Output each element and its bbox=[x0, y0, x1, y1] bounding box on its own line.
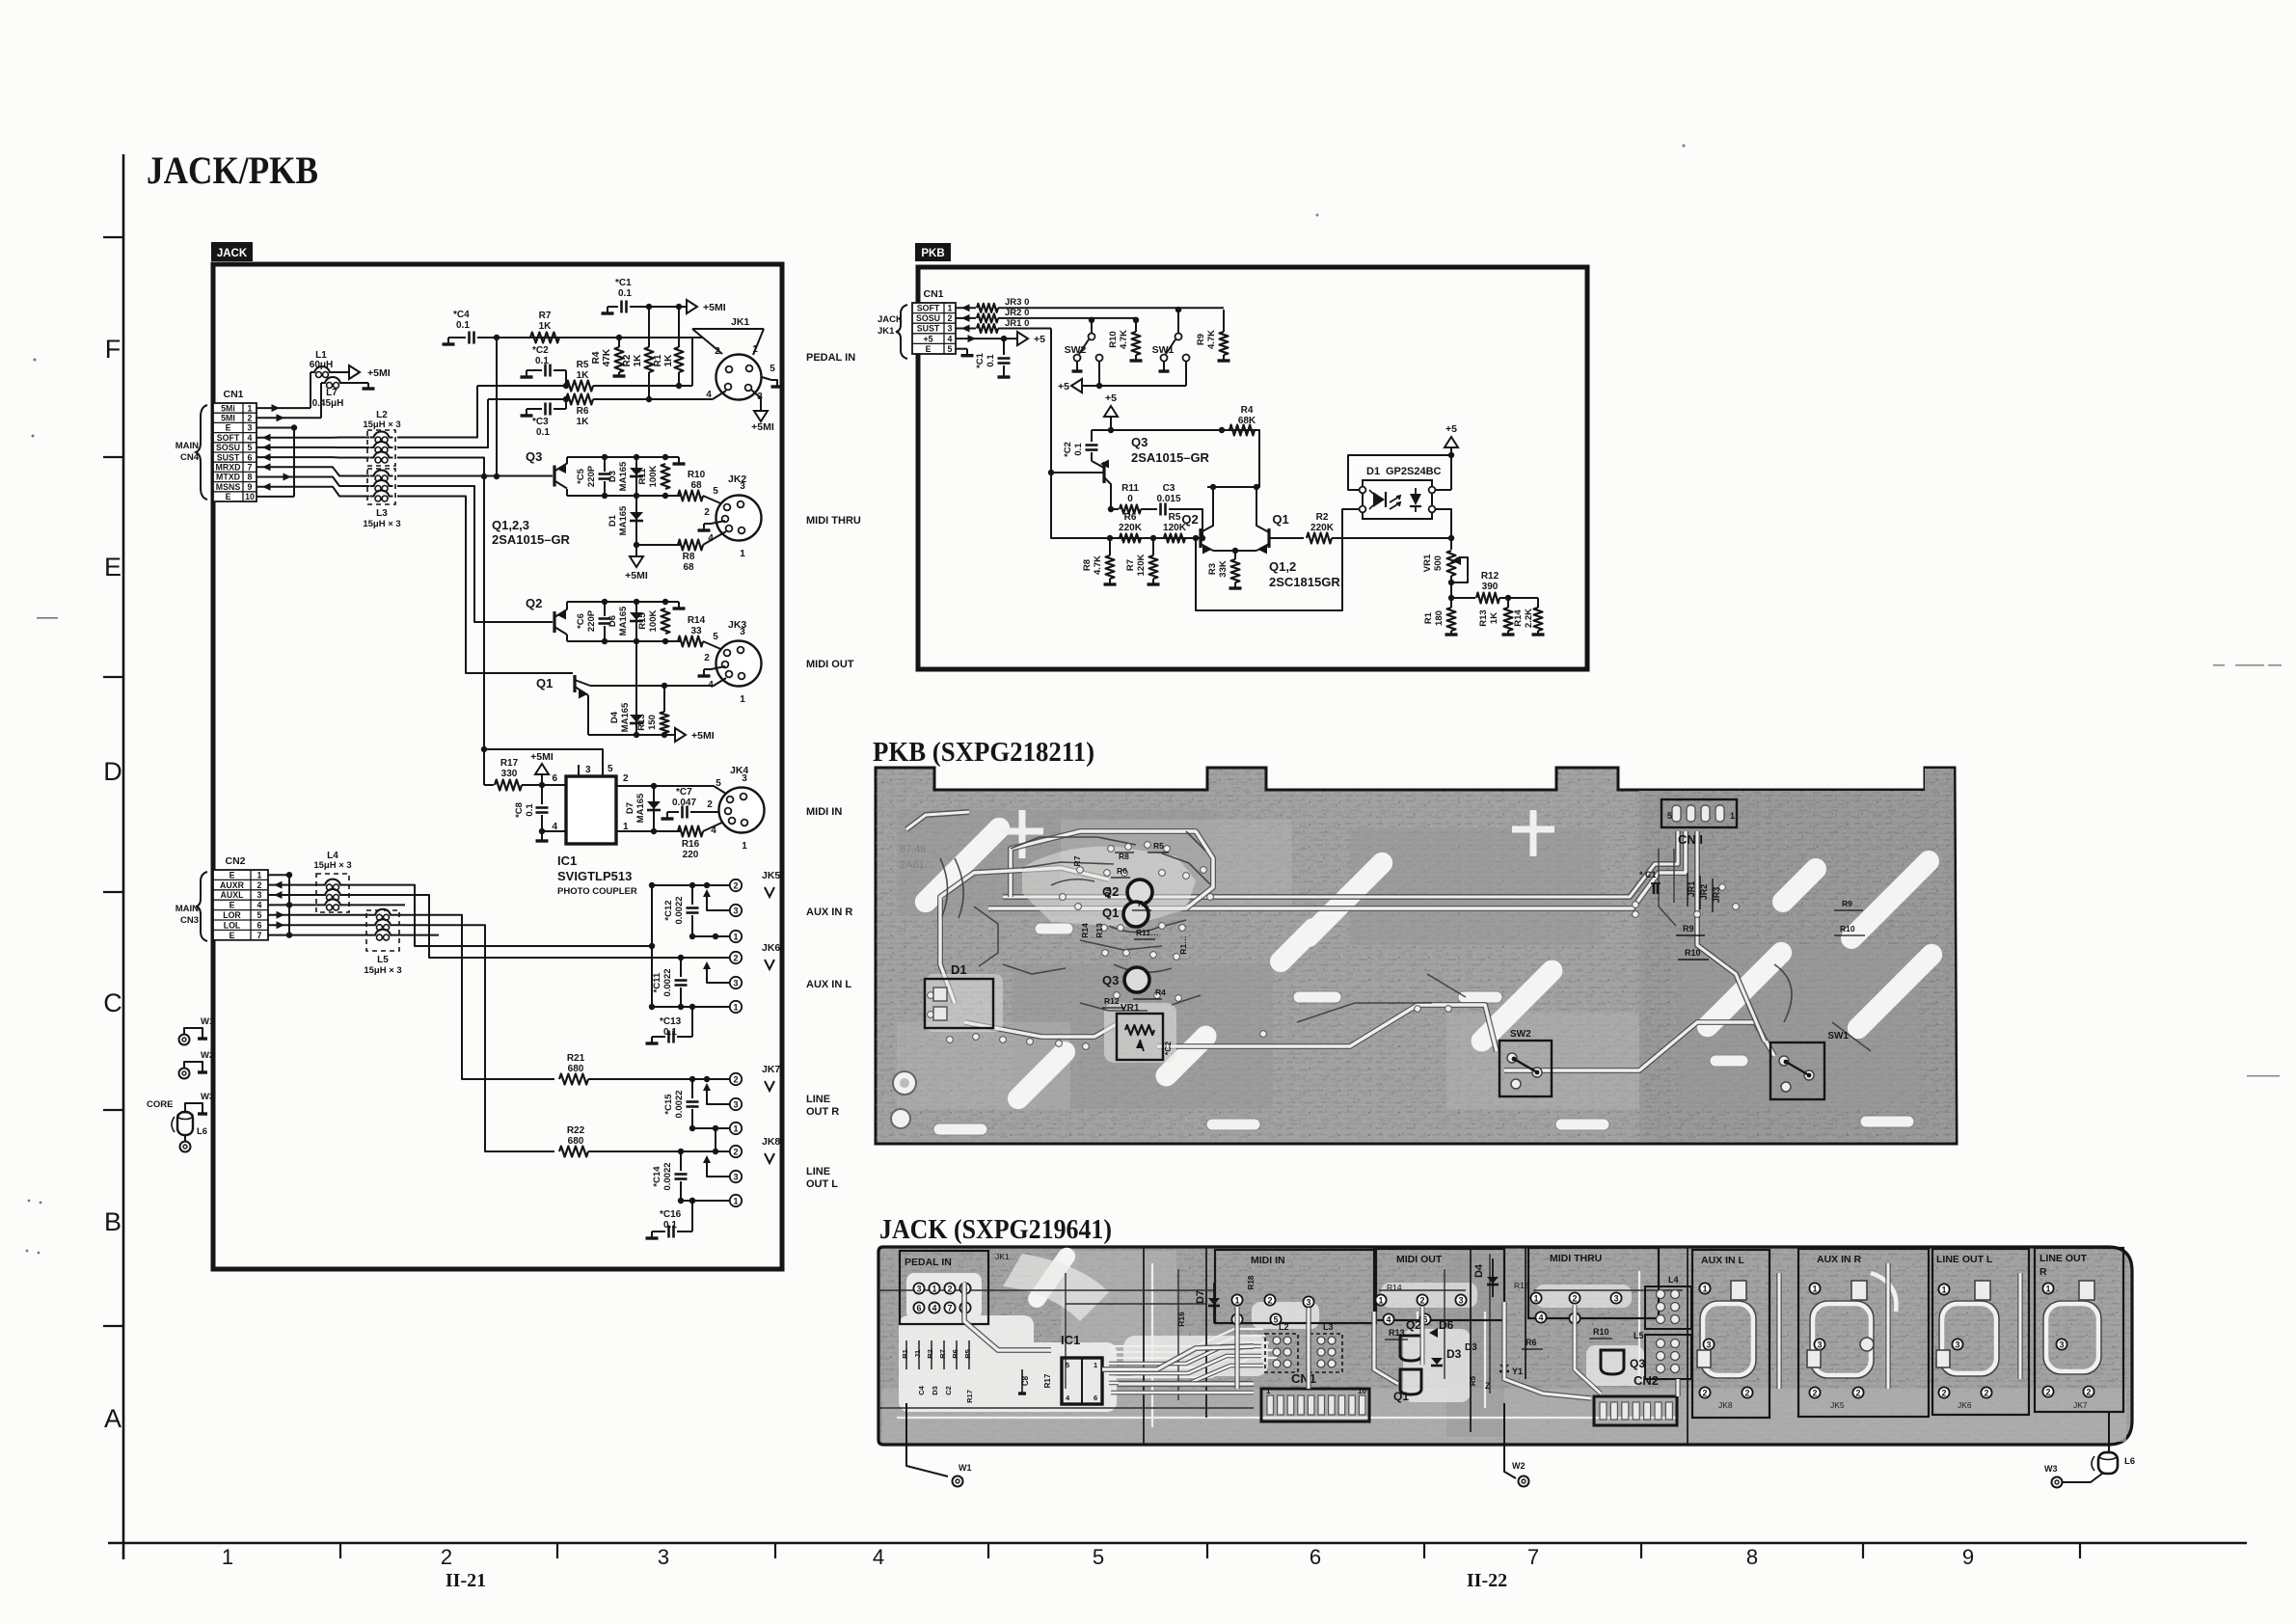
resistor R17 330 bbox=[484, 784, 494, 786]
svg-text:3: 3 bbox=[257, 890, 262, 900]
svg-text:R11…: R11… bbox=[1136, 928, 1159, 937]
svg-text:2: 2 bbox=[623, 773, 629, 784]
wire E after L5 bbox=[394, 934, 439, 936]
svg-text:L3: L3 bbox=[1323, 1322, 1334, 1332]
svg-text:*C1: *C1 bbox=[615, 278, 632, 288]
svg-text:3: 3 bbox=[1306, 1297, 1310, 1307]
svg-text:R13: R13 bbox=[1094, 923, 1104, 938]
MIDI IN pads bbox=[1231, 1294, 1242, 1305]
svg-text:AUX IN L: AUX IN L bbox=[806, 979, 851, 990]
resistor R2 220K bbox=[1307, 533, 1332, 544]
svg-text:Q1: Q1 bbox=[1102, 906, 1119, 920]
svg-text:5MI: 5MI bbox=[221, 414, 235, 423]
svg-text:SW1: SW1 bbox=[1827, 1031, 1849, 1042]
svg-text:180: 180 bbox=[1434, 610, 1445, 626]
connector CN1 PKB pin table bbox=[912, 303, 956, 354]
resistor R11 PKB 0 bbox=[1111, 508, 1119, 510]
svg-text:2: 2 bbox=[1812, 1388, 1817, 1397]
svg-text:W3: W3 bbox=[2044, 1464, 2058, 1474]
svg-text:L2: L2 bbox=[1279, 1322, 1289, 1332]
svg-text:2: 2 bbox=[733, 1147, 738, 1156]
svg-text:MAIN: MAIN bbox=[176, 904, 199, 914]
svg-text:R1: R1 bbox=[1423, 611, 1434, 624]
svg-text:JK1: JK1 bbox=[731, 316, 749, 328]
svg-text:R10: R10 bbox=[688, 470, 706, 480]
svg-text:3: 3 bbox=[742, 773, 747, 784]
svg-text:3: 3 bbox=[1817, 1340, 1822, 1349]
svg-text:R5: R5 bbox=[963, 1349, 972, 1359]
svg-text:1: 1 bbox=[248, 403, 253, 413]
svg-text:1: 1 bbox=[1533, 1293, 1538, 1303]
svg-text:MA165: MA165 bbox=[635, 793, 646, 823]
svg-text:MAIN: MAIN bbox=[176, 441, 199, 451]
ground at C13 bbox=[651, 1037, 653, 1043]
JACK section MIDI OUT bbox=[1374, 1249, 1504, 1320]
svg-text:2: 2 bbox=[441, 1545, 452, 1569]
svg-text:2: 2 bbox=[1267, 1295, 1272, 1305]
JACK PCB extra thin traces bbox=[897, 1263, 1678, 1427]
JACK PCB white copper-free zones bbox=[899, 1254, 1644, 1412]
svg-text:W1: W1 bbox=[959, 1463, 972, 1473]
ground at L7 bbox=[367, 383, 369, 389]
svg-text:2SA1015–GR: 2SA1015–GR bbox=[1131, 450, 1210, 465]
svg-text:+5MI: +5MI bbox=[625, 570, 648, 582]
svg-text:100K: 100K bbox=[648, 466, 659, 488]
svg-text:Q3: Q3 bbox=[1630, 1357, 1645, 1370]
svg-text:CN4: CN4 bbox=[180, 452, 200, 463]
wire feedback to Q2 base bbox=[1196, 509, 1357, 610]
svg-text:7: 7 bbox=[947, 1303, 952, 1313]
PKB transistor Q2 outline bbox=[1127, 880, 1152, 905]
svg-text:L3: L3 bbox=[376, 508, 388, 519]
svg-text:R17: R17 bbox=[500, 758, 519, 769]
svg-text:R5: R5 bbox=[1469, 1375, 1477, 1386]
svg-text:R21: R21 bbox=[567, 1053, 585, 1064]
svg-text:R15: R15 bbox=[637, 612, 648, 630]
svg-text:C: C bbox=[103, 988, 122, 1017]
power +5MI arrow below D1 bbox=[635, 545, 637, 555]
svg-text:9: 9 bbox=[248, 482, 253, 492]
svg-text:33: 33 bbox=[690, 626, 702, 636]
svg-text:D1: D1 bbox=[608, 514, 618, 527]
svg-text:Z: Z bbox=[1485, 1381, 1491, 1391]
scan dash marks right margin bbox=[1316, 144, 2282, 1076]
svg-text:JK7: JK7 bbox=[762, 1064, 780, 1075]
svg-text:+5: +5 bbox=[923, 334, 932, 343]
svg-text:AUX IN L: AUX IN L bbox=[1701, 1255, 1745, 1266]
svg-text:2: 2 bbox=[2045, 1387, 2050, 1396]
ground at C7 bbox=[666, 812, 668, 819]
svg-text:SW2: SW2 bbox=[1510, 1029, 1531, 1040]
svg-text:R7: R7 bbox=[539, 311, 552, 321]
svg-text:II-21: II-21 bbox=[446, 1570, 486, 1591]
PKB trace to SW1 long run bbox=[1504, 1022, 1774, 1070]
svg-text:Q2: Q2 bbox=[1181, 512, 1198, 527]
photocoupler D1 GP2S24BC box bbox=[1363, 480, 1432, 519]
svg-text:R18: R18 bbox=[1247, 1275, 1256, 1289]
svg-text:MIDI THRU: MIDI THRU bbox=[1550, 1253, 1602, 1264]
svg-text:680: 680 bbox=[568, 1064, 584, 1074]
svg-text:4: 4 bbox=[932, 1303, 936, 1313]
svg-text:R14: R14 bbox=[1080, 923, 1090, 938]
transistor Q2 bbox=[553, 611, 555, 633]
svg-text:R11: R11 bbox=[637, 468, 648, 485]
svg-text:JK5: JK5 bbox=[762, 870, 780, 881]
svg-text:IC1: IC1 bbox=[557, 853, 577, 868]
core L6 at W3 bbox=[2098, 1452, 2118, 1474]
svg-text:R1: R1 bbox=[901, 1349, 909, 1359]
svg-text:6: 6 bbox=[257, 920, 262, 930]
svg-text:1K: 1K bbox=[633, 354, 643, 367]
PEDAL IN pad circles bbox=[913, 1283, 970, 1313]
wire R21 to JK7 bbox=[588, 1078, 730, 1080]
wire bus to IC1 pin5 bbox=[484, 749, 603, 776]
JK1 pin5 ground bbox=[762, 377, 771, 380]
node junction MRXD bus to IC1 bbox=[481, 746, 487, 752]
svg-text:3: 3 bbox=[1706, 1340, 1711, 1349]
connector JK2 MIDI THRU DIN socket bbox=[716, 496, 762, 541]
svg-text:Q1,2,3: Q1,2,3 bbox=[492, 518, 529, 532]
svg-text:R2: R2 bbox=[1316, 512, 1329, 523]
Q1 emitter wire to JK3 pin4 bbox=[575, 680, 590, 686]
svg-text:220K: 220K bbox=[1119, 523, 1143, 533]
svg-text:Q1: Q1 bbox=[536, 676, 553, 690]
svg-text:*C6: *C6 bbox=[576, 613, 586, 629]
svg-text:+5: +5 bbox=[1445, 423, 1457, 435]
JACK section MIDI THRU bbox=[1528, 1248, 1659, 1318]
connector CN2 (to MAIN CN3) pin table bbox=[213, 870, 268, 940]
wire JK7 sleeve to JK8 tip bbox=[715, 1128, 716, 1151]
svg-text:15μH × 3: 15μH × 3 bbox=[363, 420, 400, 430]
svg-text:2: 2 bbox=[1419, 1295, 1424, 1305]
wire coupler top left loop bbox=[1348, 455, 1451, 490]
power +5 arrow at CN1 bbox=[1017, 332, 1028, 345]
svg-text:6: 6 bbox=[1310, 1545, 1321, 1569]
wire AUXR line to JK5 bbox=[344, 885, 652, 946]
svg-text:220P: 220P bbox=[586, 465, 597, 487]
svg-text:R14: R14 bbox=[1387, 1283, 1402, 1292]
svg-text:1: 1 bbox=[1378, 1295, 1383, 1305]
svg-text:F: F bbox=[105, 335, 122, 364]
JACK PCB long horizontal trace lines bbox=[878, 1254, 1683, 1408]
wire R2 to coupler node bbox=[1332, 537, 1451, 539]
svg-text:CN1: CN1 bbox=[923, 288, 943, 300]
svg-text:100K: 100K bbox=[648, 610, 659, 633]
Q2 collector to bottom rail bbox=[566, 635, 568, 641]
PKB top-edge cross marks bbox=[1001, 810, 1554, 858]
svg-text:JK6: JK6 bbox=[762, 942, 780, 954]
power +5MI arrow top bbox=[687, 300, 697, 313]
resistor R6 1K bbox=[566, 394, 593, 405]
svg-text:0.1: 0.1 bbox=[986, 354, 996, 367]
wires CN1 pins 4-6 to L2 bbox=[257, 434, 369, 461]
resistor R13 150 bbox=[663, 686, 665, 712]
svg-text:4.7K: 4.7K bbox=[1119, 330, 1129, 349]
wire L3 MRXD to Q3 base bbox=[397, 475, 553, 477]
wire LOR line to R21 bbox=[394, 915, 554, 1079]
power +5MI arrow at IC1 bbox=[535, 764, 549, 774]
capacitor C4 0.1 bbox=[448, 337, 466, 338]
svg-text:3: 3 bbox=[2059, 1340, 2064, 1349]
JACK section AUX IN L bbox=[1692, 1250, 1769, 1418]
svg-text:*C11: *C11 bbox=[652, 972, 662, 992]
svg-text:2SA1015–GR: 2SA1015–GR bbox=[492, 532, 571, 547]
capacitor C7 0.047 bbox=[667, 811, 679, 813]
resistor R1 1K bbox=[678, 307, 680, 347]
svg-text:*C13: *C13 bbox=[660, 1016, 682, 1027]
wire R10 to JK2 pin5 bbox=[703, 496, 725, 505]
coupler phototransistor symbol bbox=[1410, 494, 1421, 505]
svg-text:R22: R22 bbox=[567, 1125, 585, 1136]
svg-text:OUT L: OUT L bbox=[806, 1178, 838, 1190]
svg-text:R6: R6 bbox=[1117, 866, 1127, 876]
JACK PCB Q3 bbox=[1601, 1350, 1624, 1374]
svg-text:120K: 120K bbox=[1136, 555, 1147, 577]
svg-text:1: 1 bbox=[742, 841, 747, 852]
left axis tick marks bbox=[103, 237, 123, 1326]
resistor R16 220 bbox=[678, 826, 703, 837]
svg-text:MIDI IN: MIDI IN bbox=[806, 806, 842, 818]
wire L3 MSNS bus to Q1 base bbox=[397, 497, 573, 674]
JACK block label bbox=[211, 242, 253, 261]
svg-text:+5MI: +5MI bbox=[751, 421, 774, 433]
ground at C3 bbox=[526, 409, 527, 416]
diode D6 MA165 bbox=[635, 602, 637, 641]
capacitor C1 0.1 bbox=[608, 306, 618, 308]
JACK section LINE OUT R bbox=[2035, 1248, 2123, 1412]
svg-text:R6: R6 bbox=[577, 406, 589, 417]
svg-text:*C1: *C1 bbox=[975, 352, 986, 368]
svg-text:R: R bbox=[2039, 1266, 2047, 1278]
wire SOSU line bbox=[488, 398, 566, 400]
svg-text:47K: 47K bbox=[602, 348, 612, 366]
capacitor C2 0.1 bbox=[527, 369, 542, 371]
capacitor C6 220P bbox=[604, 602, 606, 616]
svg-text:L7: L7 bbox=[326, 388, 338, 398]
svg-text:Q3: Q3 bbox=[1102, 973, 1119, 988]
svg-text:JR1 0: JR1 0 bbox=[1005, 318, 1029, 329]
svg-text:4: 4 bbox=[257, 901, 262, 910]
wire SOFT line bbox=[477, 385, 566, 387]
PKB white slots bbox=[933, 923, 1914, 1135]
svg-text:1: 1 bbox=[733, 932, 738, 941]
svg-text:CN1: CN1 bbox=[223, 389, 243, 400]
svg-text:2: 2 bbox=[948, 313, 953, 323]
JACK PCB long section divider lines bbox=[1144, 1247, 1688, 1445]
svg-text:1: 1 bbox=[733, 1196, 738, 1205]
capacitor C8 0.1 bbox=[541, 785, 543, 804]
ground at CN1 pin5 bbox=[956, 348, 967, 350]
svg-text:0.1: 0.1 bbox=[456, 320, 470, 331]
Q1 collector wire down bbox=[575, 687, 588, 695]
svg-text:150: 150 bbox=[647, 715, 658, 730]
svg-text:7: 7 bbox=[1527, 1545, 1539, 1569]
svg-text:PHOTO COUPLER: PHOTO COUPLER bbox=[557, 886, 637, 897]
lug below core L6 bbox=[184, 1135, 186, 1141]
svg-text:CORE: CORE bbox=[147, 1099, 173, 1110]
svg-text:D3: D3 bbox=[931, 1386, 939, 1395]
svg-text:JK8: JK8 bbox=[762, 1136, 780, 1148]
svg-text:E: E bbox=[104, 553, 122, 582]
PKB trace from D1 up bbox=[940, 868, 1109, 1003]
svg-text:220: 220 bbox=[683, 850, 699, 860]
svg-text:D7: D7 bbox=[1195, 1290, 1206, 1304]
svg-text:R10: R10 bbox=[1685, 948, 1701, 958]
PKB small pads bbox=[928, 842, 1740, 1050]
svg-text:R16: R16 bbox=[682, 839, 700, 850]
svg-text:2: 2 bbox=[707, 799, 713, 810]
svg-text:VR1: VR1 bbox=[1422, 554, 1433, 572]
svg-text:8: 8 bbox=[1746, 1545, 1758, 1569]
svg-text:L5: L5 bbox=[377, 955, 389, 965]
svg-text:II-22: II-22 bbox=[1467, 1570, 1507, 1591]
svg-text:LINE: LINE bbox=[806, 1094, 830, 1105]
wire C4 bus down to Q3 base line bbox=[496, 338, 498, 476]
svg-text:C2: C2 bbox=[944, 1386, 953, 1395]
svg-text:4: 4 bbox=[948, 334, 953, 343]
svg-text:68K: 68K bbox=[1238, 416, 1256, 426]
svg-text:+5: +5 bbox=[1058, 381, 1069, 392]
svg-text:4: 4 bbox=[711, 826, 716, 836]
svg-text:1: 1 bbox=[932, 1284, 936, 1293]
svg-text:D1: D1 bbox=[1366, 466, 1380, 477]
svg-text:R14: R14 bbox=[688, 615, 706, 626]
resistor R5 120K bbox=[1164, 534, 1185, 543]
svg-text:MA165: MA165 bbox=[620, 702, 631, 732]
resistor R3 33K bbox=[1234, 551, 1236, 559]
svg-text:1: 1 bbox=[1941, 1285, 1946, 1294]
wire JK6 tip line bbox=[681, 957, 730, 959]
JK8 contact 3 wire bbox=[707, 1157, 730, 1177]
node junction C3 to SOSU line bbox=[563, 396, 569, 402]
svg-text:68: 68 bbox=[683, 562, 694, 573]
svg-text:JK1: JK1 bbox=[995, 1252, 1010, 1261]
inductor block L3 15uH x3 bbox=[363, 469, 400, 529]
wire AUXL line to JK6 bbox=[344, 895, 681, 958]
svg-text:R12: R12 bbox=[1104, 996, 1120, 1006]
resistor R10 68 bbox=[678, 491, 703, 501]
core L6 barrel bbox=[177, 1112, 193, 1135]
svg-text:R16: R16 bbox=[1176, 1312, 1186, 1327]
svg-text:3: 3 bbox=[948, 324, 953, 334]
svg-text:MA165: MA165 bbox=[618, 505, 629, 535]
svg-text:68: 68 bbox=[690, 480, 702, 491]
svg-text:JR3 0: JR3 0 bbox=[1005, 297, 1029, 308]
wire coupler top right to +5 bbox=[1435, 489, 1451, 491]
svg-text:0.1: 0.1 bbox=[618, 288, 632, 299]
svg-text:+5MI: +5MI bbox=[691, 730, 715, 742]
svg-text:MA165: MA165 bbox=[618, 461, 629, 491]
capacitor C3 PKB 0.015 bbox=[1159, 503, 1162, 516]
svg-text:LINE: LINE bbox=[806, 1166, 830, 1177]
svg-text:15μH × 3: 15μH × 3 bbox=[363, 519, 400, 529]
svg-text:R13: R13 bbox=[1478, 609, 1489, 626]
PKB SW2 box bbox=[1499, 1041, 1552, 1096]
svg-text:R9: R9 bbox=[1842, 899, 1852, 908]
svg-text:Y1: Y1 bbox=[1512, 1367, 1523, 1376]
svg-text:W1: W1 bbox=[201, 1016, 215, 1027]
resistor R7 120K bbox=[1152, 538, 1154, 555]
svg-text:4: 4 bbox=[706, 390, 712, 400]
svg-text:R17: R17 bbox=[1043, 1373, 1052, 1388]
JK5 contact 3 wire bbox=[707, 891, 730, 910]
node junction below VR1 bbox=[1450, 582, 1452, 598]
svg-text:D4: D4 bbox=[1473, 1263, 1485, 1278]
svg-text:2: 2 bbox=[704, 507, 710, 518]
wire R17 to IC1 pin6 bbox=[542, 784, 566, 786]
svg-text:220P: 220P bbox=[586, 609, 597, 632]
svg-text:0.015: 0.015 bbox=[1156, 494, 1180, 504]
svg-text:*C7: *C7 bbox=[676, 787, 692, 798]
resistor R14 33 bbox=[678, 636, 703, 647]
JACK PCB trace bundle IC1 to CN1 bbox=[1109, 1346, 1263, 1393]
svg-text:C4: C4 bbox=[917, 1385, 926, 1394]
JK6 contact 3 wire bbox=[707, 963, 730, 983]
PKB trace VR1 to SW2 long run bbox=[1157, 1005, 1497, 1051]
diode D1 MA165 bbox=[635, 496, 637, 545]
wire C8 to IC1 pin4 bbox=[542, 830, 566, 832]
transistor Q3 bbox=[553, 466, 555, 487]
svg-text:D4: D4 bbox=[609, 711, 620, 723]
svg-text:3: 3 bbox=[733, 1172, 738, 1181]
svg-text:JACK: JACK bbox=[878, 314, 903, 325]
PKB white diagonal streaks bbox=[910, 813, 1946, 1113]
wires CN1 pins 7-9 to L3 bbox=[257, 463, 369, 496]
svg-text:1: 1 bbox=[222, 1545, 233, 1569]
capacitor C16 0.1 bbox=[691, 1201, 693, 1232]
resistor R4 68K bbox=[1229, 425, 1255, 436]
wire Q3 PKB base bbox=[1051, 472, 1104, 474]
LINE OUT L pads bbox=[1938, 1284, 1949, 1294]
JK1 pin3 to +5MI bbox=[751, 390, 761, 410]
svg-text:R2: R2 bbox=[1138, 899, 1148, 908]
svg-text:3: 3 bbox=[1613, 1293, 1618, 1303]
wire IC1 pin1 to R16 bbox=[616, 830, 681, 832]
svg-text:10: 10 bbox=[1358, 1387, 1366, 1395]
wire CN2 E bus bbox=[268, 874, 289, 876]
svg-text:MIDI OUT: MIDI OUT bbox=[806, 659, 854, 670]
resistor R22 680 bbox=[559, 1147, 588, 1157]
svg-text:E: E bbox=[230, 931, 235, 940]
ground at Q2 rail right bbox=[678, 602, 680, 609]
PKB connector CN1 pad box bbox=[1661, 799, 1737, 827]
svg-text:OUT R: OUT R bbox=[806, 1106, 839, 1118]
svg-text:5: 5 bbox=[713, 632, 718, 642]
resistor R7 1K bbox=[530, 333, 559, 343]
svg-text:0.1: 0.1 bbox=[525, 803, 535, 817]
svg-text:R4: R4 bbox=[1155, 988, 1166, 997]
LINE OUT R pads bbox=[2042, 1283, 2053, 1293]
inductor block L5 15uH x3 bbox=[364, 909, 401, 976]
svg-text:D: D bbox=[103, 757, 122, 786]
svg-text:*C8: *C8 bbox=[514, 802, 525, 818]
column numbers 1-9 bbox=[222, 1545, 1974, 1569]
svg-text:1: 1 bbox=[1730, 811, 1735, 821]
svg-text:5Mi: 5Mi bbox=[221, 403, 235, 413]
svg-text:D1: D1 bbox=[951, 962, 967, 977]
JACK schematic box border bbox=[213, 264, 782, 1269]
transistor Q1 bbox=[573, 675, 576, 692]
svg-text:CN3: CN3 bbox=[180, 915, 199, 926]
JACK section box PEDAL IN bbox=[900, 1251, 988, 1324]
svg-text:E: E bbox=[926, 344, 932, 354]
svg-text:MIDI IN: MIDI IN bbox=[1251, 1255, 1285, 1266]
JACK board lighter band bbox=[882, 1389, 2126, 1442]
JK7 sleeve line bbox=[692, 1127, 730, 1129]
coupler pin circles bbox=[1360, 487, 1436, 513]
wire L3 MTXD bus to Q2 base bbox=[397, 486, 553, 622]
svg-text:R7: R7 bbox=[1072, 855, 1082, 866]
